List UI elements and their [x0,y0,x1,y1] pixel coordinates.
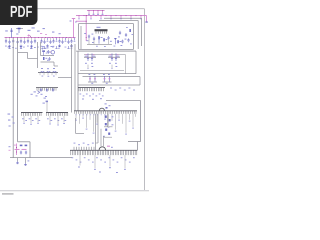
capacitor C11 [43,38,45,44]
capacitor C14 [52,38,54,47]
filter F2 [103,74,112,84]
IC U3 column [103,114,113,137]
diode D1 [114,38,117,44]
capacitor C32 [107,36,111,42]
wire arc feeds [101,129,112,146]
net labels right of J4 [110,88,135,91]
part cluster above J2 right [105,103,111,108]
resistor R10 [98,36,102,43]
connector J3 [70,143,137,156]
transformer T1 [84,53,96,69]
connector J1 segment B [46,113,68,126]
pin labels J3 [72,155,135,173]
capacitor C21 [74,38,76,42]
wire net drop right [145,16,147,23]
capacitor C33 [118,31,121,38]
resistor R1 [16,28,23,35]
resistor R13 [117,40,121,43]
wire block outline psu [10,142,72,158]
capacitor C10 [40,38,42,47]
wire stage1 frame [38,42,59,68]
wire right rail [74,44,76,111]
resistor R11 [103,38,107,41]
wire riser pair [96,114,99,151]
resistor network stage2 [38,68,58,77]
wire AVCC branch [76,15,87,41]
capacitor C60 [47,50,49,54]
wire regulator nets [84,33,112,44]
capacitor C31 [92,37,95,43]
resistor network stage2b [31,88,59,98]
socket XS1 bump [99,108,104,111]
capacitor C6 [23,38,25,44]
wire routed bus A [104,18,142,46]
capacitor C34 [125,33,128,40]
capacitor C30 [87,35,91,42]
wire VCC bus left [5,37,76,38]
value labels bus left [8,47,73,49]
labels left of J1 [8,114,15,127]
capacitor C19 [67,38,69,44]
connector J2 [74,111,137,135]
power flag +5V [70,19,77,38]
capacitor C20 [70,38,73,47]
wire VDD bus top [87,10,105,15]
capacitor C7 [27,38,29,47]
transistor Q2 [99,147,105,150]
IC U2 [95,27,108,34]
wire block outline io [106,101,141,151]
PDF badge [0,0,38,25]
transformer T2 [108,53,120,69]
capacitor C15 [56,38,58,42]
capacitor C8 [30,38,33,47]
net labels top [32,27,61,35]
wire block outline rectifier [78,51,136,74]
wire stage2 corner [58,44,72,113]
capacitor C71 [25,151,27,155]
filter F1 [88,74,97,84]
capacitor C12 [46,38,49,47]
capacitor C35 [121,40,124,46]
labels psu [9,146,11,151]
resistor R20 [41,48,47,56]
capacitor C9 [34,38,36,48]
capacitor C17 [61,38,63,44]
net labels stage1 [42,46,53,48]
capacitor C70 [20,151,22,155]
ground stubs bus left [8,46,69,49]
resistor R21 [43,57,47,60]
transistor Q1 [50,50,55,54]
resistor R12 [129,29,131,32]
capacitor C61 [47,57,51,61]
wire block outline filter [78,74,140,111]
wire left riser corner [76,118,85,133]
capacitor C16 [58,38,61,47]
wire VDD bus right [76,15,147,19]
node SENSE [34,91,45,104]
ground [16,158,19,164]
node VBAT [28,30,32,37]
connector header J4 [78,88,105,100]
wire left rail 2 [17,38,19,142]
net label right of Q2 [107,146,113,148]
capacitor C36 [127,38,131,44]
ground [24,158,29,166]
resistor R31 [22,145,28,150]
resistor R30 [15,145,23,150]
capacitor C5 [20,38,23,48]
capacitor C3 [12,38,14,48]
capacitor C13 [49,38,51,44]
wire left jog [18,52,38,58]
wire routed bus B [99,21,138,50]
capacitor C2 [8,38,11,47]
capacitor C18 [65,38,67,42]
connector J1 segment A [21,113,43,125]
part above J2 [44,98,49,113]
sheet title label [2,193,14,194]
battery BT1 [14,144,17,156]
pin numbers J2 [76,113,106,116]
wire left rail 1 [12,38,14,158]
wire block outline regulator [76,24,136,51]
capacitor C22 [5,28,13,38]
capacitor C1 [5,38,7,47]
capacitor C4 [17,38,19,44]
value labels regulator [96,27,133,47]
